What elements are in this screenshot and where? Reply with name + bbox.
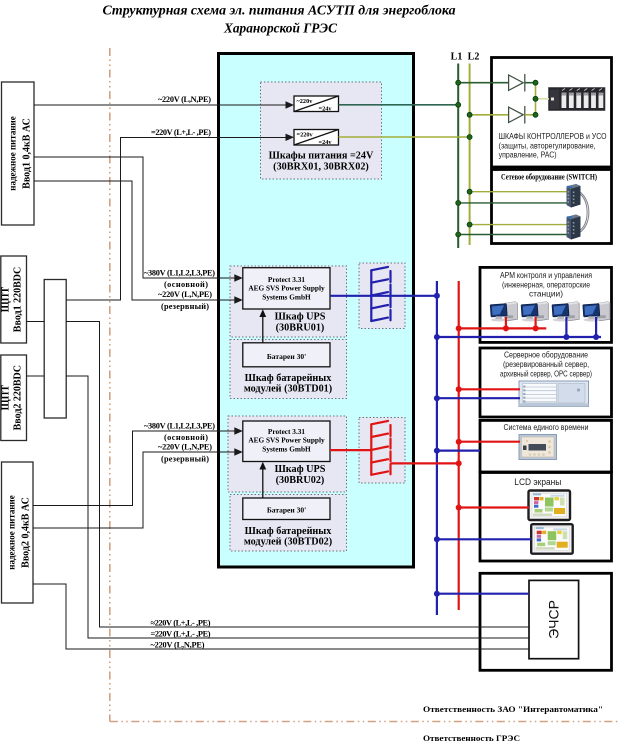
wire converter1 output to L1 <box>339 104 459 106</box>
ЭЧСР outer box <box>480 573 612 670</box>
svg-text:ЭЧСР: ЭЧСР <box>546 600 562 639</box>
svg-text:AEG SVS Power Supply: AEG SVS Power Supply <box>248 436 325 445</box>
blue breaker dashed box <box>359 263 405 329</box>
battery2 box <box>243 498 330 520</box>
svg-text:Шкаф батарейных: Шкаф батарейных <box>245 373 333 384</box>
svg-text:Батареи 30': Батареи 30' <box>267 506 306 515</box>
svg-text:Systems GmbH: Systems GmbH <box>262 445 311 454</box>
wire coupler to ЭЧСР line 2 <box>66 376 529 638</box>
supply system main box <box>219 54 414 568</box>
diode D2 <box>509 106 525 124</box>
svg-text:Шкаф UPS: Шкаф UPS <box>275 464 326 475</box>
junction dots red <box>456 325 539 510</box>
АРМ blue drop 1 <box>565 317 567 337</box>
wire ~220V reserve to UPS2 <box>33 452 236 528</box>
svg-text:=220V (L+,L- ,PE): =220V (L+,L- ,PE) <box>151 128 211 137</box>
svg-text:надежное питание: надежное питание <box>7 495 17 569</box>
svg-text:Сетевое оборудование (SWITCH): Сетевое оборудование (SWITCH) <box>501 171 597 181</box>
workstation icon 1 <box>490 302 517 322</box>
arrowhead UPS1 380V input <box>234 274 243 281</box>
wire red bus to LCD 1 <box>459 506 529 508</box>
svg-text:Шкафы питания =24V: Шкафы питания =24V <box>269 151 374 162</box>
battery1 box <box>243 343 330 367</box>
wire L1 to switch 1 <box>458 202 566 204</box>
svg-text:=24v: =24v <box>319 139 333 146</box>
junction dots blue <box>434 293 599 597</box>
responsibility boundary dash-dot line vertical <box>109 48 111 722</box>
wire blue bus to server <box>437 397 520 399</box>
server icon <box>519 381 589 407</box>
svg-text:архивный сервер, ОРС сервер): архивный сервер, ОРС сервер) <box>500 368 592 378</box>
svg-text:АРМ контроля и управления: АРМ контроля и управления <box>500 270 592 280</box>
svg-text:(основной): (основной) <box>164 280 208 289</box>
battery1 dashed box <box>230 340 347 399</box>
svg-text:Серверное оборудование: Серверное оборудование <box>504 350 588 360</box>
UPS2 Protect box U2 <box>243 421 330 462</box>
svg-text:L2: L2 <box>468 52 480 63</box>
svg-text:Protect 3.31: Protect 3.31 <box>268 427 305 436</box>
wire red bus to АРМ stations <box>459 327 547 329</box>
svg-text:(30BRU02): (30BRU02) <box>276 475 325 486</box>
svg-text:~220V (L,N,PE): ~220V (L,N,PE) <box>158 290 212 299</box>
input box Ввод2 220ВDC ЩПТ <box>1 355 27 441</box>
svg-text:~380V (L1,L2,L3,PE): ~380V (L1,L2,L3,PE) <box>144 421 215 430</box>
svg-text:надежное питание: надежное питание <box>8 116 18 190</box>
svg-text:Ответственность ЗАО "Интеравто: Ответственность ЗАО "Интеравтоматика" <box>423 704 603 714</box>
UPS1 dashed box <box>230 266 347 337</box>
wire blue bus to ЭЧСР <box>437 593 529 595</box>
wire L1 to switch 2 <box>458 234 566 236</box>
input box Ввод1 0,4кВ АС <box>2 82 35 225</box>
arrowhead UPS2 380V input <box>234 427 243 434</box>
responsibility boundary dash-dot line horizontal <box>110 721 620 723</box>
wire coupler to ЭЧСР line 1 <box>66 322 529 628</box>
svg-text:L1: L1 <box>451 52 463 63</box>
wire ~380V main to UPS2 <box>33 431 236 506</box>
DC coupler box <box>44 280 66 419</box>
UPS2 output wire red <box>330 449 371 451</box>
controllers cabinet box <box>492 58 612 168</box>
svg-text:Шкаф батарейных: Шкаф батарейных <box>245 526 333 537</box>
svg-text:Systems GmbH: Systems GmbH <box>262 293 311 302</box>
wire ~220V L,N,PE to converter 1 <box>34 104 288 106</box>
svg-text:Батареи 30': Батареи 30' <box>267 352 306 361</box>
svg-text:AEG SVS Power Supply: AEG SVS Power Supply <box>248 284 325 293</box>
svg-text:управление, РАС): управление, РАС) <box>499 150 557 160</box>
workstation icon 4 <box>583 302 610 322</box>
node link vertical <box>535 83 537 115</box>
svg-text:(резервный): (резервный) <box>161 454 209 463</box>
wire =220V from coupler to converter 2 <box>66 137 288 299</box>
svg-text:(резервный): (резервный) <box>161 302 209 311</box>
wire blue bus to LCD 2 <box>437 538 532 540</box>
wire L2 to diode 2 <box>470 114 509 116</box>
label АРМ контроля и управления <box>500 270 592 299</box>
UPS1 Protect box U1 <box>243 268 330 309</box>
svg-text:Protect 3.31: Protect 3.31 <box>268 275 305 284</box>
svg-text:Ввод2 0,4кВ АС: Ввод2 0,4кВ АС <box>21 497 32 568</box>
wire blue bus to clock box <box>437 450 480 452</box>
bus blue vertical <box>436 281 438 615</box>
svg-text:~220V (L,N,PE): ~220V (L,N,PE) <box>158 95 211 104</box>
junction dots green <box>456 80 538 237</box>
network switch icon 2 <box>567 215 581 240</box>
workstation icon 2 <box>521 302 548 322</box>
battery2 arrow to UPS2 <box>262 467 264 498</box>
wire L1 to diode 1 <box>458 82 508 84</box>
wire red bus to clock <box>459 441 520 443</box>
svg-text:=220v: =220v <box>297 132 314 139</box>
АРМ workstations box <box>480 267 612 342</box>
wire blue bus to АРМ stations <box>437 336 601 338</box>
wire L2 to switch 1 <box>470 191 567 193</box>
wire red bus to server <box>459 388 520 390</box>
wire converter2 output to L2 <box>339 136 470 138</box>
arrowhead converter 1 input <box>286 101 295 108</box>
network switch icon 1 <box>567 184 581 208</box>
wire node to PLC <box>536 98 550 100</box>
bus L1 <box>457 64 459 249</box>
wire ~220V reserve to UPS1 <box>34 181 236 300</box>
АРМ red drop 1 <box>505 317 507 328</box>
LCD screen icon 2 <box>531 524 573 554</box>
svg-text:Ответственность ГРЭС: Ответственность ГРЭС <box>423 733 520 743</box>
svg-text:(30BRX01, 30BRX02): (30BRX01, 30BRX02) <box>273 162 369 173</box>
battery2 dashed box <box>230 495 347 552</box>
svg-text:Структурная схема эл. питания: Структурная схема эл. питания АСУТП для … <box>103 3 456 18</box>
server box <box>480 348 612 417</box>
svg-text:модулей (30BTD01): модулей (30BTD01) <box>244 384 332 395</box>
cabinet 24V dashed box <box>261 82 382 179</box>
wire ~220V to ЭЧСР line 3 <box>33 584 529 649</box>
ЭЧСР inner box <box>529 580 579 658</box>
svg-text:модулей (30BTD02): модулей (30BTD02) <box>244 536 332 547</box>
wire diode1 to node <box>525 82 536 84</box>
svg-text:~220v: ~220v <box>297 98 314 105</box>
bus L2 <box>469 64 471 246</box>
svg-text:Ввод1 0,4кВ АС: Ввод1 0,4кВ АС <box>22 118 33 189</box>
battery1 arrow to UPS1 <box>262 315 264 343</box>
network cabinet box <box>492 170 612 244</box>
svg-text:~220V (L,N,PE): ~220V (L,N,PE) <box>151 640 205 649</box>
svg-text:Система единого времени: Система единого времени <box>504 422 589 432</box>
wire L2 to switch 2 <box>470 224 567 226</box>
wire ЩПТ2 to coupler <box>27 375 45 377</box>
label ШКАФЫ КОНТРОЛЛЕРОВ <box>499 131 607 160</box>
arrowhead UPS1 220V input <box>234 296 243 303</box>
clock device icon <box>519 435 557 460</box>
breaker symbol red Q2 <box>371 421 390 475</box>
LCD screens box <box>480 473 612 562</box>
UPS2 dashed box <box>228 416 347 492</box>
breaker symbol blue Q1 <box>371 267 390 321</box>
svg-text:станции): станции) <box>529 289 563 299</box>
label Серверное оборудование <box>500 350 592 379</box>
АРМ blue drop 2 <box>595 317 597 337</box>
svg-text:~220V (L,N,PE): ~220V (L,N,PE) <box>158 442 212 451</box>
svg-text:=24v: =24v <box>319 106 333 113</box>
wire red breaker output to red bus <box>391 462 459 464</box>
diode D1 <box>509 74 525 92</box>
svg-text:=220V (L+,L- ,PE): =220V (L+,L- ,PE) <box>151 629 211 638</box>
LCD screen icon 1 <box>529 491 571 521</box>
svg-text:Харанорской ГРЭС: Харанорской ГРЭС <box>223 21 338 36</box>
arrowhead converter 2 input <box>286 134 295 141</box>
svg-text:(основной): (основной) <box>164 433 208 442</box>
bus red vertical <box>458 281 460 610</box>
clock system box <box>480 420 612 472</box>
wire diode2 to node <box>525 114 536 116</box>
svg-text:≈220V (L+,L- ,PE): ≈220V (L+,L- ,PE) <box>151 618 211 627</box>
input box Ввод2 0,4кВ АС <box>2 462 34 603</box>
UPS1 output wire blue <box>330 295 437 297</box>
svg-text:(30BRU01): (30BRU01) <box>276 322 325 333</box>
PLC rack icon <box>549 88 606 111</box>
converter 1 ~220v/=24v <box>294 96 339 113</box>
switch redundancy arcs <box>577 190 589 234</box>
svg-text:~380V (L1,L2,L3,PE): ~380V (L1,L2,L3,PE) <box>144 268 215 277</box>
workstation icon 3 <box>552 302 579 322</box>
input box Ввод1 220ВDC ЩПТ <box>1 256 27 343</box>
red breaker dashed box <box>359 418 405 484</box>
wire ЩПТ1 to coupler <box>27 321 45 323</box>
svg-text:Шкаф UPS: Шкаф UPS <box>275 311 326 322</box>
АРМ red drop 2 <box>534 317 536 328</box>
wire ~380V main to UPS1 <box>34 157 236 278</box>
svg-text:LCD экраны: LCD экраны <box>514 477 561 487</box>
arrowhead UPS2 220V input <box>234 448 243 455</box>
converter 2 =220v/=24v <box>294 130 339 147</box>
